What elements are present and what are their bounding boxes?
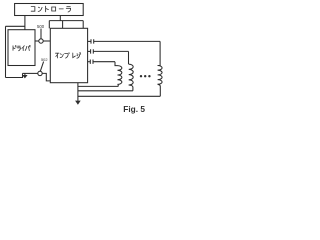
レ	[73, 53, 76, 58]
バ	[25, 45, 30, 50]
ン	[60, 54, 63, 58]
branch to coil L3	[158, 41, 161, 65]
cap line 1 (top)	[88, 40, 91, 42]
capacitor C2	[91, 49, 94, 53]
ジ	[77, 53, 81, 59]
ア	[56, 53, 59, 58]
svg-text:502: 502	[41, 57, 48, 62]
ラ	[66, 6, 70, 12]
coil L3	[158, 66, 163, 85]
ground stem from middle box	[77, 83, 79, 101]
wire1: driver to middle box with node 500	[35, 40, 39, 42]
wire: left outer vertical	[5, 26, 7, 77]
bus drop mid	[62, 21, 64, 29]
coil L1	[118, 66, 122, 85]
coil L2 exit to bus2	[129, 85, 133, 91]
bus drop right into box corner	[82, 21, 84, 29]
wire: controller bottom to bus	[59, 16, 61, 21]
driver box (ドライバ)	[8, 30, 35, 66]
bus1	[78, 85, 118, 87]
capacitor C3	[90, 60, 93, 64]
middle box label (励磁 レジ)	[56, 53, 81, 59]
wire: controller bottom to driver top	[24, 16, 26, 30]
coil L3 exit to bus3	[158, 84, 161, 96]
ラ	[17, 46, 20, 51]
プ	[65, 53, 70, 58]
wire: left outer bottom to node 502 wire	[6, 73, 23, 77]
wire2: left to middle box with node 502	[23, 72, 38, 74]
bus2	[78, 90, 133, 92]
cap line 3 (bottom)	[88, 61, 90, 63]
leader for label 502	[40, 62, 43, 72]
bus over middle box	[49, 20, 83, 22]
bus3	[78, 95, 160, 97]
ド	[13, 46, 16, 51]
ン	[38, 7, 42, 11]
svg-text:Fig. 5: Fig. 5	[123, 104, 145, 114]
coil L1 exit to bus1	[117, 84, 120, 86]
ト	[46, 6, 49, 12]
controller label コントローラ	[31, 6, 70, 12]
middle box 504 (power block)	[50, 28, 87, 82]
capacitor C1	[91, 39, 94, 43]
driver label ドライバ	[13, 45, 30, 50]
cap line 2 (middle)	[88, 50, 91, 52]
main ground arrow	[75, 101, 81, 105]
node 502 circle	[38, 71, 42, 75]
bus drop left into box corner	[48, 21, 50, 29]
svg-text:500: 500	[37, 24, 45, 29]
ー	[59, 8, 63, 10]
ellipsis dots between coils	[140, 75, 142, 77]
イ	[22, 46, 25, 51]
branch to coil L2	[128, 51, 130, 64]
coil L2	[129, 64, 134, 85]
controller box U500 (コントローラ)	[15, 4, 84, 16]
コ	[31, 7, 35, 12]
branch to coil L1	[115, 62, 118, 66]
ロ	[52, 7, 56, 11]
wire: branch left from drop	[6, 25, 25, 27]
leader for label 500	[40, 29, 42, 39]
small ground arrow near driver	[24, 73, 26, 75]
node 500 circle	[39, 39, 43, 43]
